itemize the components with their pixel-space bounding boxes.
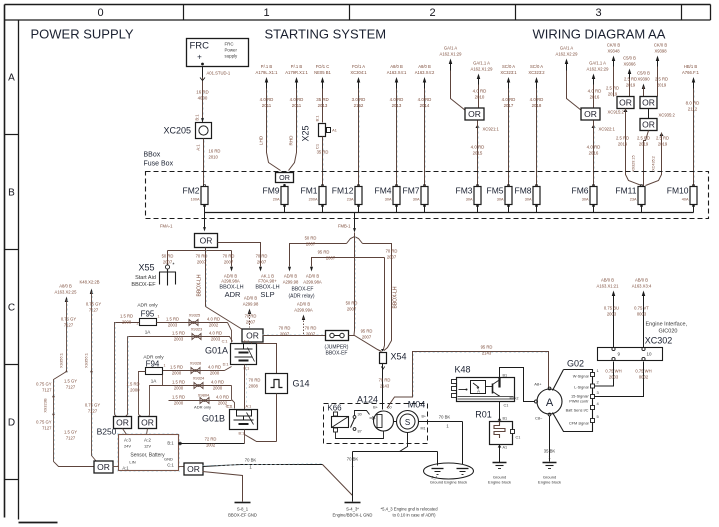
BBox Fuse Box dashed enclosure: [144, 152, 709, 219]
svg-text:CK/0 B: CK/0 B: [654, 43, 667, 48]
svg-text:2002: 2002: [209, 323, 219, 328]
svg-text:2013: 2013: [318, 103, 328, 108]
svg-text:Power: Power: [225, 48, 238, 53]
svg-text:XC915:2: XC915:2: [608, 110, 625, 115]
relay module K48: [452, 365, 515, 402]
svg-text:0002: 0002: [639, 375, 649, 380]
svg-text:2019: 2019: [658, 142, 668, 147]
svg-text:70 RD: 70 RD: [249, 378, 261, 383]
svg-text:(ADR relay): (ADR relay): [288, 294, 314, 300]
svg-text:2000: 2000: [130, 388, 140, 393]
svg-text:2003: 2003: [607, 312, 617, 317]
wire K48 C1 to R01: [498, 402, 509, 422]
svg-text:XC323:1: XC323:1: [500, 70, 517, 75]
svg-text:A:1: A:1: [244, 340, 250, 344]
svg-text:A299.98A: A299.98A: [303, 280, 322, 285]
svg-text:STARTING SYSTEM: STARTING SYSTEM: [265, 27, 387, 42]
svg-text:A01.STUD-1: A01.STUD-1: [207, 71, 231, 76]
label 0.75 WH below XC302: [605, 369, 651, 380]
wire right branch down to FM11: [646, 133, 670, 186]
wire column A8/0 B to FM4: [387, 64, 407, 187]
svg-text:A162.X1:29: A162.X1:29: [471, 67, 494, 72]
svg-text:0.75 VT: 0.75 VT: [634, 306, 649, 311]
connector X25: [301, 124, 337, 187]
wire XC302 pin 10 to AB/0 B ref: [632, 278, 652, 348]
svg-text:XC922:1: XC922:1: [599, 127, 616, 132]
svg-text:OR: OR: [97, 462, 110, 472]
svg-text:M1: M1: [421, 427, 426, 431]
fuse FM5: [487, 184, 513, 206]
svg-text:FM4: FM4: [375, 186, 392, 196]
svg-text:70 RD: 70 RD: [256, 254, 268, 259]
svg-text:A: A: [477, 389, 480, 394]
svg-text:2143: 2143: [380, 384, 390, 389]
battery equalizer G01A: [205, 340, 257, 371]
svg-text:7127: 7127: [88, 409, 98, 414]
svg-text:FM2: FM2: [183, 186, 200, 196]
fuse FM11: [615, 184, 645, 206]
svg-text:NE05 B1: NE05 B1: [314, 70, 331, 75]
svg-text:70 RD: 70 RD: [305, 326, 317, 331]
svg-text:FO/1 A: FO/1 A: [352, 64, 365, 69]
svg-text:2019: 2019: [618, 142, 628, 147]
svg-text:95 RD: 95 RD: [481, 345, 493, 350]
svg-text:200A: 200A: [309, 198, 318, 202]
svg-text:35 RD: 35 RD: [316, 97, 328, 102]
fuse F95 ADR only: [137, 303, 160, 335]
svg-text:P/.1 B: P/.1 B: [261, 64, 273, 69]
svg-text:A162.X1:29: A162.X1:29: [440, 52, 463, 57]
wire CK/0 B X9348 into OR: [606, 43, 620, 97]
svg-text:C8−: C8−: [535, 416, 543, 421]
wire F95 to X9325 to G01A C1: [157, 313, 232, 343]
connector X55 start aid: [131, 263, 176, 289]
wire OR to G01A A1: [251, 342, 253, 344]
battery equalizer G01B: [202, 405, 258, 436]
svg-text:2007: 2007: [280, 332, 290, 337]
wire K48.X2 sensor lead left: [79, 280, 101, 462]
svg-text:A179L.X1:1: A179L.X1:1: [256, 70, 279, 75]
svg-text:BBOX-EF: BBOX-EF: [292, 287, 314, 293]
svg-text:SLP: SLP: [260, 290, 274, 299]
svg-text:B1: B1: [503, 374, 508, 378]
svg-text:3: 3: [595, 7, 601, 19]
svg-text:10: 10: [647, 352, 653, 357]
svg-text:23A: 23A: [630, 198, 637, 202]
wire from lower OR down to FM11: [637, 131, 650, 187]
wire starter to oval ground: [419, 415, 463, 465]
wire F95 left to rail: [115, 314, 140, 415]
svg-text:2011: 2011: [262, 103, 272, 108]
svg-text:BBOX-LH: BBOX-LH: [197, 274, 203, 296]
svg-text:FM12: FM12: [332, 186, 354, 196]
svg-text:XC935:2: XC935:2: [659, 113, 676, 118]
wire column RHD P/.1 B: [285, 64, 308, 171]
svg-text:1: 1: [263, 7, 269, 19]
svg-text:AB/0 B: AB/0 B: [635, 278, 648, 283]
svg-text:OR: OR: [279, 173, 290, 182]
svg-text:ADR only: ADR only: [194, 405, 211, 410]
fuse FM9: [263, 184, 289, 206]
svg-text:0.75 GY: 0.75 GY: [36, 420, 52, 425]
svg-text:X9398: X9398: [654, 49, 667, 54]
starter assembly A124 dashed box: [324, 395, 428, 444]
svg-text:A162.X2:29: A162.X2:29: [556, 52, 579, 57]
svg-text:C5/0 B: C5/0 B: [637, 71, 650, 76]
svg-text:95 RD: 95 RD: [318, 250, 330, 255]
svg-text:23A: 23A: [347, 198, 354, 202]
svg-text:*5,4_3 Engine gnd is relocated: *5,4_3 Engine gnd is relocated: [381, 507, 439, 512]
svg-text:B250: B250: [97, 427, 117, 437]
pulse generator G14: [266, 374, 310, 394]
OR gate right upper of FM11 group: [640, 97, 657, 109]
wire OR to FM3: [471, 121, 500, 187]
wire F94 left to rail: [126, 372, 145, 415]
svg-text:FO/1 C: FO/1 C: [316, 64, 330, 69]
svg-text:LIN: LIN: [129, 460, 135, 465]
svg-text:4.0 RD: 4.0 RD: [390, 97, 404, 102]
svg-text:0.75 GY: 0.75 GY: [61, 317, 77, 322]
wire A8/0 B sensor lead left: [36, 284, 94, 467]
svg-text:A298.98A: A298.98A: [221, 279, 240, 284]
svg-text:1.5 RD: 1.5 RD: [120, 314, 133, 319]
svg-text:B:1: B:1: [195, 114, 200, 121]
svg-text:A:1: A:1: [246, 405, 252, 409]
svg-text:C:1: C:1: [226, 405, 232, 409]
svg-text:A163.X1:21: A163.X1:21: [597, 284, 620, 289]
svg-text:B+: B+: [422, 415, 427, 419]
wire R01 A1 to ground: [498, 445, 507, 463]
svg-text:35 BK: 35 BK: [544, 449, 556, 454]
svg-text:2003: 2003: [211, 337, 221, 342]
svg-text:A: A: [546, 397, 554, 409]
svg-text:Start Aid: Start Aid: [135, 275, 156, 281]
svg-text:OR: OR: [141, 418, 154, 428]
svg-text:70 BK: 70 BK: [347, 457, 359, 462]
svg-text:OR: OR: [642, 120, 655, 130]
wire CK/0 B X9398 into OR: [654, 43, 668, 97]
svg-text:SC/0 A: SC/0 A: [530, 64, 543, 69]
FRC power supply box: [187, 39, 249, 67]
svg-text:B8+2: B8+2: [510, 397, 519, 401]
wire row X9324 from F94: [150, 375, 232, 415]
svg-text:0.75 WH: 0.75 WH: [635, 369, 651, 374]
svg-text:to 0.10 in case of ADR): to 0.10 in case of ADR): [393, 513, 437, 518]
wire XC205 to fuse FM2: [196, 139, 221, 187]
fuse F94 ADR only: [143, 355, 165, 384]
svg-text:30A: 30A: [582, 198, 589, 202]
svg-text:X9323: X9323: [191, 327, 203, 332]
wire 70 BK from starter to ground: [347, 452, 359, 502]
svg-text:BBOX-EF: BBOX-EF: [131, 282, 156, 288]
svg-text:7127: 7127: [66, 436, 76, 441]
svg-text:FM11: FM11: [615, 186, 636, 196]
connector XC205: [164, 123, 212, 139]
wire ref arrow AD/0 B into OR: [243, 296, 259, 328]
wire column A8/0 B to FM7: [415, 64, 435, 187]
svg-text:2.5 RD: 2.5 RD: [656, 136, 669, 141]
svg-text:4.0 RD: 4.0 RD: [588, 89, 602, 94]
svg-text:B: B: [8, 188, 15, 199]
svg-text:2017: 2017: [504, 103, 514, 108]
svg-text:2018: 2018: [532, 103, 542, 108]
svg-text:2007: 2007: [362, 335, 372, 340]
label Engine Interface GIC020: [646, 322, 688, 335]
svg-text:4.0 RD: 4.0 RD: [211, 380, 224, 385]
svg-text:Fuse Box: Fuse Box: [144, 161, 174, 168]
wire column FO/1 A to FM12: [350, 64, 367, 187]
wire column LHD P/.1 B: [256, 64, 281, 171]
svg-text:G01A: G01A: [205, 346, 228, 356]
svg-text:1.5 RD: 1.5 RD: [172, 331, 185, 336]
svg-text:FM9: FM9: [263, 186, 280, 196]
svg-text:FRC: FRC: [190, 41, 210, 52]
OR gate at B250 LIN input: [94, 461, 113, 473]
wire OR outputs into B250: [123, 429, 148, 435]
svg-text:S: S: [405, 418, 410, 427]
svg-text:2010: 2010: [209, 155, 219, 160]
svg-text:B1: B1: [503, 417, 508, 421]
svg-text:2.5 RD: 2.5 RD: [655, 77, 668, 82]
svg-text:X9329:15: X9329:15: [632, 155, 636, 171]
svg-text:F95: F95: [141, 310, 155, 319]
connector XC302: [598, 336, 673, 361]
wire G02 15-Signal to XC302 pin 10: [595, 362, 644, 397]
resistor R01: [475, 410, 520, 445]
svg-text:4.0 RD: 4.0 RD: [502, 97, 516, 102]
svg-text:70 RD: 70 RD: [386, 249, 398, 254]
wire starter bottom to grounds: [353, 433, 438, 466]
svg-text:1: 1: [158, 315, 160, 319]
svg-text:1.5 RD: 1.5 RD: [172, 380, 185, 385]
svg-text:0.75 GY: 0.75 GY: [86, 302, 102, 307]
svg-text:0003: 0003: [637, 312, 647, 317]
svg-text:GA/1.1 A: GA/1.1 A: [473, 61, 490, 66]
wire ammeter to ground 35 BK: [544, 416, 556, 462]
fuse FM6: [572, 184, 598, 206]
svg-text:C1: C1: [504, 404, 509, 408]
svg-text:2152: 2152: [354, 103, 364, 108]
svg-text:2003: 2003: [174, 337, 184, 342]
column header ticks and labels: [97, 5, 681, 21]
svg-text:X25: X25: [301, 125, 311, 141]
svg-text:2007: 2007: [224, 260, 234, 265]
svg-text:A8/0 B: A8/0 B: [390, 64, 403, 69]
svg-text:2143: 2143: [482, 351, 492, 356]
svg-text:W-Signal: W-Signal: [573, 374, 589, 379]
svg-text:A163.X4:2: A163.X4:2: [415, 70, 435, 75]
fuse FM1: [301, 184, 327, 206]
wire K48 B1 to ammeter: [500, 368, 538, 404]
svg-text:A299.98: A299.98: [283, 280, 299, 285]
svg-text:AD/0 B: AD/0 B: [244, 296, 257, 301]
svg-text:A766.F:1: A766.F:1: [682, 70, 700, 75]
wire column HB/1 B to FM10: [682, 64, 700, 187]
svg-text:K48.X2:2B: K48.X2:2B: [79, 280, 99, 285]
svg-text:FM1: FM1: [301, 186, 318, 196]
svg-text:1A: 1A: [151, 379, 158, 384]
svg-text:A1: A1: [332, 129, 337, 133]
svg-text:M04: M04: [408, 400, 426, 410]
svg-text:70 RD: 70 RD: [279, 326, 291, 331]
svg-text:7127: 7127: [42, 388, 52, 393]
svg-text:2019: 2019: [626, 83, 636, 88]
fuse FM7: [403, 184, 429, 206]
wire to X55 start aid: [162, 251, 174, 266]
svg-text:A:1: A:1: [122, 466, 129, 471]
svg-text:4.0 RD: 4.0 RD: [216, 395, 229, 400]
svg-text:2016: 2016: [590, 95, 600, 100]
svg-text:2000: 2000: [172, 371, 182, 376]
svg-text:7127: 7127: [66, 385, 76, 390]
wire BBOX-LH down from OR: [196, 251, 208, 307]
svg-text:2010: 2010: [475, 95, 485, 100]
wire column SC/0 A to FM8: [528, 64, 545, 187]
svg-text:2007: 2007: [257, 260, 267, 265]
wire GA/1.1 A into OR above FM6: [587, 61, 610, 108]
svg-text:GND: GND: [164, 457, 173, 462]
svg-text:B+: B+: [373, 406, 379, 410]
fuse FM2: [183, 184, 209, 206]
svg-text:24V: 24V: [124, 444, 131, 449]
svg-text:2003: 2003: [168, 323, 178, 328]
fuse output bus: [205, 205, 694, 213]
svg-text:A163.X3:4: A163.X3:4: [632, 284, 652, 289]
svg-text:C1: C1: [516, 436, 521, 440]
svg-text:A8/0 B: A8/0 B: [59, 284, 72, 289]
OR gate above B250 A2: [139, 415, 150, 418]
fuse FM12: [332, 184, 362, 206]
wire row X9328 to G01A D1: [163, 361, 232, 376]
svg-text:XC323:2: XC323:2: [528, 70, 545, 75]
svg-text:A299.98: A299.98: [243, 302, 259, 307]
svg-text:S-4_3*: S-4_3*: [346, 507, 359, 512]
wire second arrow to BBOX-EF ADR relay: [310, 250, 385, 272]
svg-text:CFM signal: CFM signal: [569, 421, 589, 426]
svg-text:FM3: FM3: [456, 186, 473, 196]
svg-text:4000: 4000: [198, 96, 208, 101]
svg-text:70 RD: 70 RD: [196, 254, 208, 259]
svg-text:OR: OR: [468, 109, 481, 119]
svg-text:FM6: FM6: [572, 186, 589, 196]
svg-text:R01: R01: [475, 410, 492, 420]
wire lambda center down to jumper: [346, 237, 358, 336]
svg-text:A163.X2:25: A163.X2:25: [55, 290, 78, 295]
svg-text:WIRING DIAGRAM AA: WIRING DIAGRAM AA: [533, 27, 666, 42]
svg-text:2112: 2112: [688, 107, 698, 112]
relay K66: [327, 404, 348, 433]
svg-text:30A: 30A: [385, 198, 392, 202]
svg-text:7127: 7127: [89, 308, 99, 313]
svg-text:2015: 2015: [473, 151, 483, 156]
svg-text:2003: 2003: [609, 375, 619, 380]
svg-text:2000: 2000: [174, 401, 184, 406]
battery sensor B250: [97, 427, 180, 472]
svg-text:BBox: BBox: [144, 152, 161, 159]
svg-text:XC435:2: XC435:2: [652, 156, 656, 171]
svg-text:2007: 2007: [163, 260, 173, 265]
wire OR distribution rail: [168, 248, 232, 251]
svg-text:XC205: XC205: [164, 126, 192, 136]
svg-text:P/.1 B: P/.1 B: [291, 64, 303, 69]
wire lambda right branch down to X54: [363, 244, 399, 351]
svg-text:Engine block: Engine block: [538, 480, 561, 485]
svg-text:C: C: [8, 303, 15, 314]
svg-text:OR: OR: [187, 464, 200, 474]
svg-text:OR: OR: [200, 236, 213, 246]
svg-text:A:3: A:3: [124, 438, 131, 443]
svg-text:X9356:1: X9356:1: [84, 352, 89, 368]
svg-text:A8/0 B: A8/0 B: [418, 64, 431, 69]
fuse FM10: [667, 184, 697, 206]
svg-text:4.0 RD: 4.0 RD: [260, 97, 274, 102]
svg-text:A:1: A:1: [196, 144, 201, 151]
svg-text:4.0 RD: 4.0 RD: [418, 97, 432, 102]
svg-text:3.0 RD: 3.0 RD: [352, 97, 366, 102]
svg-text:95 RD: 95 RD: [361, 329, 373, 334]
svg-text:7127: 7127: [64, 323, 74, 328]
svg-text:+: +: [197, 53, 202, 62]
svg-text:0: 0: [97, 7, 103, 19]
svg-text:4.0 RD: 4.0 RD: [290, 97, 304, 102]
wire column SC/0 A to FM5: [500, 64, 517, 187]
svg-text:A8+: A8+: [534, 382, 542, 387]
label BBOX-EF ADR relay destination: [283, 274, 322, 300]
svg-text:2000: 2000: [210, 371, 220, 376]
wire arrow to BBOX-LH SLP: [218, 243, 280, 300]
svg-text:SC/0 A: SC/0 A: [502, 64, 515, 69]
svg-text:0.75 BU: 0.75 BU: [604, 306, 619, 311]
svg-text:50 RD: 50 RD: [162, 254, 174, 259]
wire 95 RD branch down to X54: [383, 258, 385, 351]
svg-text:8.0 RD: 8.0 RD: [686, 101, 700, 106]
svg-text:X55: X55: [138, 263, 154, 273]
OR gate right lower of FM11 group: [649, 109, 676, 119]
svg-text:A: A: [8, 73, 15, 84]
svg-text:XC304:1: XC304:1: [350, 70, 367, 75]
svg-text:A163.X4:1: A163.X4:1: [387, 70, 407, 75]
svg-text:GIC020: GIC020: [659, 329, 678, 335]
wire GA/1 A into OR above FM6: [556, 46, 582, 111]
wire rail dash overlays: [54, 237, 355, 462]
ground S-4_3 Engine BBOX-L GND: [333, 503, 373, 518]
starter solenoid: [370, 406, 394, 432]
svg-text:4.0 RD: 4.0 RD: [208, 365, 221, 370]
wire jumper to X54: [349, 329, 382, 352]
svg-text:50 RD: 50 RD: [305, 236, 317, 241]
svg-text:1002: 1002: [206, 443, 216, 448]
svg-text:C5/0 B: C5/0 B: [623, 56, 636, 61]
svg-text:16 RD: 16 RD: [196, 90, 208, 95]
OR gate at B250 GND output: [179, 466, 185, 468]
svg-text:35 RD: 35 RD: [317, 150, 329, 155]
svg-text:X9348: X9348: [607, 49, 620, 54]
svg-text:2011: 2011: [292, 103, 302, 108]
svg-text:L-Signal: L-Signal: [574, 385, 588, 390]
svg-text:GA/1.1 A: GA/1.1 A: [589, 61, 606, 66]
wire lambda left branch to ADR relay arrow: [288, 236, 347, 272]
svg-text:30A: 30A: [413, 198, 420, 202]
OR gate FMA-1 distribution: [195, 234, 218, 248]
ammeter alternator A: [534, 382, 562, 421]
svg-text:2007: 2007: [326, 256, 336, 261]
svg-text:Engine Interface,: Engine Interface,: [646, 322, 688, 328]
svg-text:2007: 2007: [197, 260, 207, 265]
wire OR to FM6: [587, 121, 616, 187]
wire GA/1.1 A into OR above FM3: [471, 61, 494, 108]
svg-text:40A: 40A: [682, 198, 689, 202]
svg-text:4.0 RD: 4.0 RD: [471, 145, 485, 150]
